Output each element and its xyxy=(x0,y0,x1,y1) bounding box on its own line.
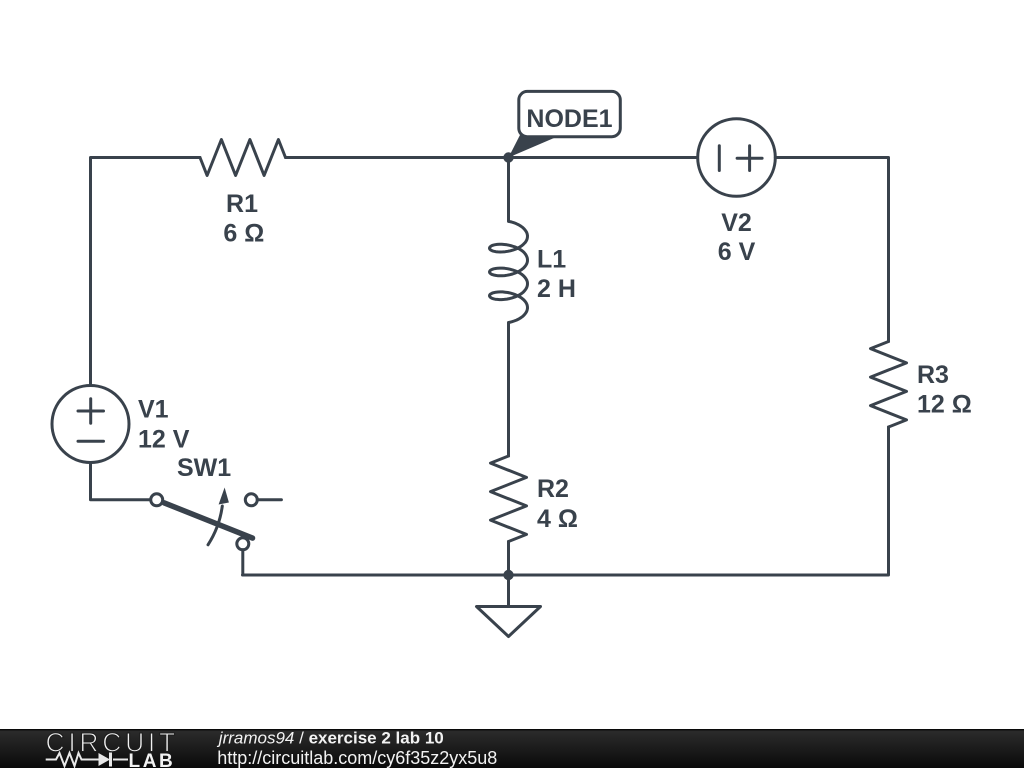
wire node to inductor xyxy=(507,158,510,222)
wire top-left: left rail and top rail into R1 xyxy=(91,158,201,386)
wire R2 to bottom rail xyxy=(507,542,510,576)
svg-text:2 H: 2 H xyxy=(537,275,576,303)
svg-text:V2: V2 xyxy=(721,209,752,237)
node NODE1 dot xyxy=(503,152,513,162)
wire L1 to R2 xyxy=(507,323,510,457)
wire V2 to right rail xyxy=(775,158,888,342)
SW1 blade xyxy=(164,503,253,538)
svg-text:jrramos94 / exercise 2 lab 10: jrramos94 / exercise 2 lab 10 xyxy=(217,729,444,748)
svg-text:R3: R3 xyxy=(917,361,949,389)
V2 minus terminal bar xyxy=(718,146,721,171)
SW1 arrowhead xyxy=(219,488,229,505)
wire switch to bottom rail xyxy=(241,550,244,575)
ground xyxy=(507,575,510,606)
NODE1 callout box xyxy=(519,91,621,136)
svg-text:http://circuitlab.com/cy6f35z2: http://circuitlab.com/cy6f35z2yx5u8 xyxy=(217,748,497,768)
svg-text:SW1: SW1 xyxy=(177,454,231,482)
svg-text:LAB: LAB xyxy=(129,751,176,768)
V2 plus sign xyxy=(737,146,762,171)
svg-text:6 V: 6 V xyxy=(718,238,756,266)
wire R3 to bottom rail xyxy=(243,427,889,575)
logo resistor-diode line xyxy=(46,753,128,767)
svg-text:V1: V1 xyxy=(138,396,169,424)
NODE1 callout pointer xyxy=(509,135,562,158)
node bottom junction dot xyxy=(503,570,513,580)
logo diode triangle xyxy=(99,753,111,766)
wire V1 to switch xyxy=(91,463,151,500)
svg-text:12 V: 12 V xyxy=(138,426,190,454)
voltage source V1 xyxy=(52,386,129,463)
svg-text:R2: R2 xyxy=(537,475,569,503)
SW1 actuation arc xyxy=(208,506,222,545)
V1 minus sign xyxy=(78,440,104,443)
SW1 bottom terminal xyxy=(237,538,249,550)
svg-text:L1: L1 xyxy=(537,246,566,274)
resistor R2 xyxy=(491,456,527,542)
resistor R3 xyxy=(871,342,907,428)
svg-text:12 Ω: 12 Ω xyxy=(917,391,972,419)
resistor R1 xyxy=(200,140,286,176)
svg-text:NODE1: NODE1 xyxy=(526,105,612,133)
switch SW1 xyxy=(151,494,163,506)
svg-text:4 Ω: 4 Ω xyxy=(537,505,578,533)
voltage source V2 xyxy=(698,119,776,197)
inductor L1 xyxy=(490,221,528,322)
V1 plus sign xyxy=(78,399,104,424)
svg-text:6 Ω: 6 Ω xyxy=(223,220,264,248)
footer bar xyxy=(0,729,1024,768)
SW1 right stub wire xyxy=(257,498,281,501)
wire R1 to V2 xyxy=(286,156,698,159)
svg-text:R1: R1 xyxy=(226,190,258,218)
